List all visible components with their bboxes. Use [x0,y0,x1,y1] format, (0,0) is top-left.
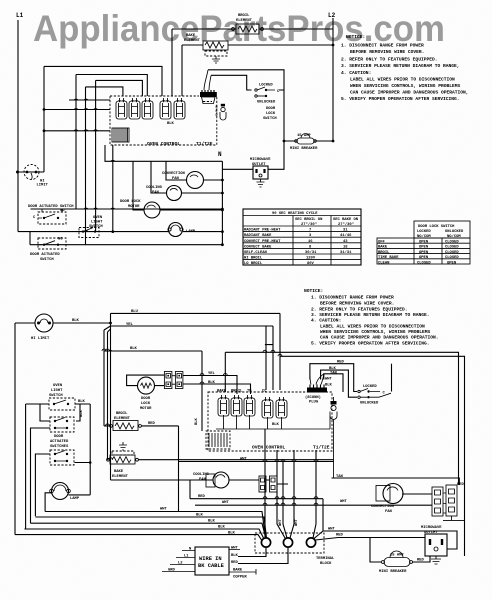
svg-text:CLOSED: CLOSED [445,241,459,245]
svg-text:LOCK: LOCK [141,402,151,406]
svg-text:D: D [216,114,218,118]
svg-text:2. REFER ONLY TO FEATURES EQUI: 2. REFER ONLY TO FEATURES EQUIPPED. [311,307,408,313]
svg-text:LIGHT: LIGHT [51,389,63,393]
svg-text:UNLOCKED: UNLOCKED [445,230,464,234]
svg-text:COPPER: COPPER [233,576,247,580]
svg-text:DOOR: DOOR [141,397,151,401]
svg-text:5. VERIFY PROPER OPERATION AFT: 5. VERIFY PROPER OPERATION AFTER SERVICI… [311,341,430,347]
svg-text:LO BROIL: LO BROIL [244,262,263,266]
svg-text:CLOSED: CLOSED [417,261,431,265]
svg-text:WHT: WHT [222,501,230,505]
svg-text:SELF-CLEAN: SELF-CLEAN [244,251,268,255]
svg-text:OPEN: OPEN [447,261,457,265]
svg-text:BLK: BLK [130,347,138,351]
svg-text:OPEN: OPEN [419,246,429,250]
svg-text:FAN: FAN [385,510,393,514]
svg-text:LOCKED: LOCKED [363,385,377,389]
svg-text:CL: CL [262,390,267,394]
svg-text:PLUG: PLUG [309,401,319,405]
svg-text:L1: L1 [184,555,189,559]
svg-text:CLOSED: CLOSED [445,246,459,250]
svg-text:BLK: BLK [208,381,216,385]
svg-text:BROIL: BROIL [378,251,390,255]
svg-text:MOTOR: MOTOR [128,205,140,209]
svg-text:WIRE IN: WIRE IN [199,556,222,562]
svg-text:3. SERVICER PLEASE RETURN DIAG: 3. SERVICER PLEASE RETURN DIAGRAM TO RAN… [311,312,430,318]
svg-text:MINI BREAKER: MINI BREAKER [290,147,318,151]
svg-text:TIME BAKE: TIME BAKE [378,256,399,260]
svg-text:L1: L1 [16,12,24,19]
svg-text:ELEMENT: ELEMENT [236,19,253,23]
svg-text:ELEMENT: ELEMENT [112,475,129,479]
svg-text:OVEN CONTROL: OVEN CONTROL [252,445,285,451]
svg-text:BK CABLE: BK CABLE [198,563,225,569]
svg-text:DOOR ACTUATED SWITCH: DOOR ACTUATED SWITCH [28,205,74,209]
svg-text:SWITCHES: SWITCHES [50,445,69,449]
svg-text:LOCKED: LOCKED [417,230,431,234]
svg-text:RED: RED [457,483,465,487]
svg-text:LOCKED: LOCKED [259,84,273,88]
svg-text:RADIANT PRE-HEAT: RADIANT PRE-HEAT [244,229,281,233]
svg-text:NO/COM: NO/COM [447,234,461,239]
svg-text:43: 43 [343,240,348,244]
svg-text:CONVECT PRE-HEAT: CONVECT PRE-HEAT [244,240,281,244]
svg-text:BROIL: BROIL [116,412,128,416]
svg-text:41/46: 41/46 [340,233,352,238]
svg-text:BLK: BLK [78,400,86,404]
svg-text:BLK: BLK [167,122,175,126]
svg-text:N: N [218,151,222,158]
svg-text:TB: TB [247,390,252,394]
svg-text:DOOR ACTUATED: DOOR ACTUATED [30,253,60,257]
svg-text:OFF: OFF [378,241,386,245]
svg-text:CAN CAUSE IMPROPER AND DANGERO: CAN CAUSE IMPROPER AND DANGEROUS OPERATI… [320,335,439,341]
svg-text:WHT: WHT [240,458,248,462]
svg-text:90 SEC HEATING CYCLE: 90 SEC HEATING CYCLE [272,212,318,216]
svg-text:WHT: WHT [160,508,168,512]
svg-text:WHT: WHT [295,518,299,526]
svg-text:ACTUATED: ACTUATED [50,440,69,444]
svg-text:LAMP: LAMP [186,230,196,234]
svg-text:RED: RED [336,534,344,538]
svg-text:MICROWAVE: MICROWAVE [250,158,271,162]
svg-text:2. REFER ONLY TO FEATURES EQUI: 2. REFER ONLY TO FEATURES EQUIPPED. [341,57,438,63]
svg-text:31: 31 [343,229,348,233]
svg-text:BAKE: BAKE [114,470,124,474]
svg-text:BAKE: BAKE [378,246,388,250]
svg-text:OPEN: OPEN [419,251,429,255]
svg-text:HI LIMIT: HI LIMIT [31,337,50,341]
svg-text:DOOR: DOOR [54,435,64,439]
svg-text:L2: L2 [328,12,336,19]
svg-text:DOOR LOCK SWITCH: DOOR LOCK SWITCH [418,225,455,229]
svg-text:18: 18 [343,245,348,249]
svg-text:4. CAUTION:: 4. CAUTION: [341,70,371,76]
svg-text:16: 16 [308,240,313,244]
svg-text:31/31: 31/31 [340,250,352,255]
svg-text:BARE: BARE [233,569,243,573]
svg-text:OVEN: OVEN [93,216,103,220]
svg-text:LOCK: LOCK [266,112,276,116]
svg-text:5. VERIFY PROPER OPERATION AFT: 5. VERIFY PROPER OPERATION AFTER SERVICI… [341,96,460,102]
svg-text:HI BROIL: HI BROIL [244,257,263,261]
svg-text:120V: 120V [306,257,316,261]
svg-text:RADIANT BAKE: RADIANT BAKE [244,234,272,238]
svg-text:WHT: WHT [279,518,283,526]
svg-text:GRD: GRD [168,569,176,573]
svg-text:T1/T2E: T1/T2E [313,445,330,451]
svg-text:MINI BREAKER: MINI BREAKER [379,570,407,574]
svg-text:BEFORE REMOVING WIRE COVER.: BEFORE REMOVING WIRE COVER. [320,301,394,307]
svg-text:TERMINAL: TERMINAL [316,557,335,561]
svg-text:CONVECT BAKE: CONVECT BAKE [244,245,272,249]
svg-text:BEFORE REMOVING WIRE COVER.: BEFORE REMOVING WIRE COVER. [350,49,424,55]
svg-text:L2: L2 [178,562,183,566]
svg-text:BLK: BLK [80,409,84,417]
svg-text:OVEN: OVEN [53,384,63,388]
svg-text:SWITCH: SWITCH [49,394,63,398]
svg-text:NOTICE:: NOTICE: [346,34,365,40]
svg-text:SWITCH: SWITCH [263,117,277,121]
svg-text:WHEN SERVICING CONTROLS, WIRIN: WHEN SERVICING CONTROLS, WIRING PROBLEMS [350,83,461,89]
svg-text:27"/30": 27"/30" [301,222,317,227]
svg-text:OVEN CONTROL: OVEN CONTROL [147,141,180,147]
svg-text:BROIL: BROIL [238,14,250,18]
svg-text:UNLOCKED: UNLOCKED [257,101,276,105]
svg-text:SEC BAKE ON: SEC BAKE ON [333,218,359,222]
svg-text:COOLING: COOLING [146,186,163,190]
svg-text:LABEL ALL WIRES PRIOR TO DISCO: LABEL ALL WIRES PRIOR TO DISCONNECTION [320,324,425,330]
svg-text:T1/T2E: T1/T2E [196,141,213,147]
svg-text:WHT: WHT [340,500,348,504]
svg-text:(8CONN): (8CONN) [305,395,321,400]
svg-text:DOOR LOCK: DOOR LOCK [120,200,141,204]
svg-text:LIGHT: LIGHT [91,221,103,225]
svg-text:CAN CAUSE IMPROPER AND DANGERO: CAN CAUSE IMPROPER AND DANGEROUS OPERATI… [350,90,469,96]
svg-text:BLK: BLK [272,423,280,427]
svg-text:3. SERVICER PLEASE RETURN DIAG: 3. SERVICER PLEASE RETURN DIAGRAM TO RAN… [341,63,460,69]
svg-text:ELEMENT: ELEMENT [184,39,201,43]
svg-text:WHEN SERVICING CONTROLS, WIRIN: WHEN SERVICING CONTROLS, WIRING PROBLEMS [320,329,431,335]
svg-text:BLK: BLK [195,417,199,425]
svg-text:MOTOR: MOTOR [140,407,152,411]
svg-text:BLK: BLK [231,554,239,558]
svg-text:WHT: WHT [231,547,239,551]
svg-text:BLK: BLK [72,319,80,323]
svg-text:RED: RED [231,561,239,565]
svg-text:CLOSED: CLOSED [445,256,459,260]
svg-text:DOOR: DOOR [266,107,276,111]
svg-text:BLK: BLK [325,384,333,388]
svg-text:30/31: 30/31 [305,250,317,255]
svg-text:4. CAUTION:: 4. CAUTION: [311,318,341,324]
svg-text:NOTICE:: NOTICE: [304,288,323,294]
svg-text:27"/30": 27"/30" [338,222,354,227]
svg-text:CLEAN: CLEAN [378,261,390,265]
svg-text:WHT: WHT [325,378,333,382]
svg-text:CLOSED: CLOSED [445,251,459,255]
svg-text:MICROWAVE: MICROWAVE [421,526,442,530]
svg-text:1. DISCONNECT RANGE FROM POWER: 1. DISCONNECT RANGE FROM POWER [311,295,394,301]
svg-text:BAKE: BAKE [186,34,196,38]
svg-text:SEC BROIL ON: SEC BROIL ON [295,218,323,222]
svg-text:CONVECTION: CONVECTION [371,505,395,509]
svg-text:80V: 80V [307,262,315,266]
svg-text:LABEL ALL WIRES PRIOR TO DISCO: LABEL ALL WIRES PRIOR TO DISCONNECTION [350,77,455,83]
svg-text:LIMIT: LIMIT [37,184,49,188]
svg-text:SWITCH: SWITCH [40,258,54,262]
svg-text:OPEN: OPEN [419,241,429,245]
svg-text:1. DISCONNECT RANGE FROM POWER: 1. DISCONNECT RANGE FROM POWER [341,43,424,49]
svg-text:OPEN: OPEN [419,256,429,260]
svg-text:NO/COM: NO/COM [417,234,431,239]
svg-text:RED: RED [148,422,156,426]
svg-text:BLOCK: BLOCK [320,562,332,566]
svg-text:LAMP: LAMP [70,497,80,501]
svg-text:UNLOCKED: UNLOCKED [360,402,379,406]
